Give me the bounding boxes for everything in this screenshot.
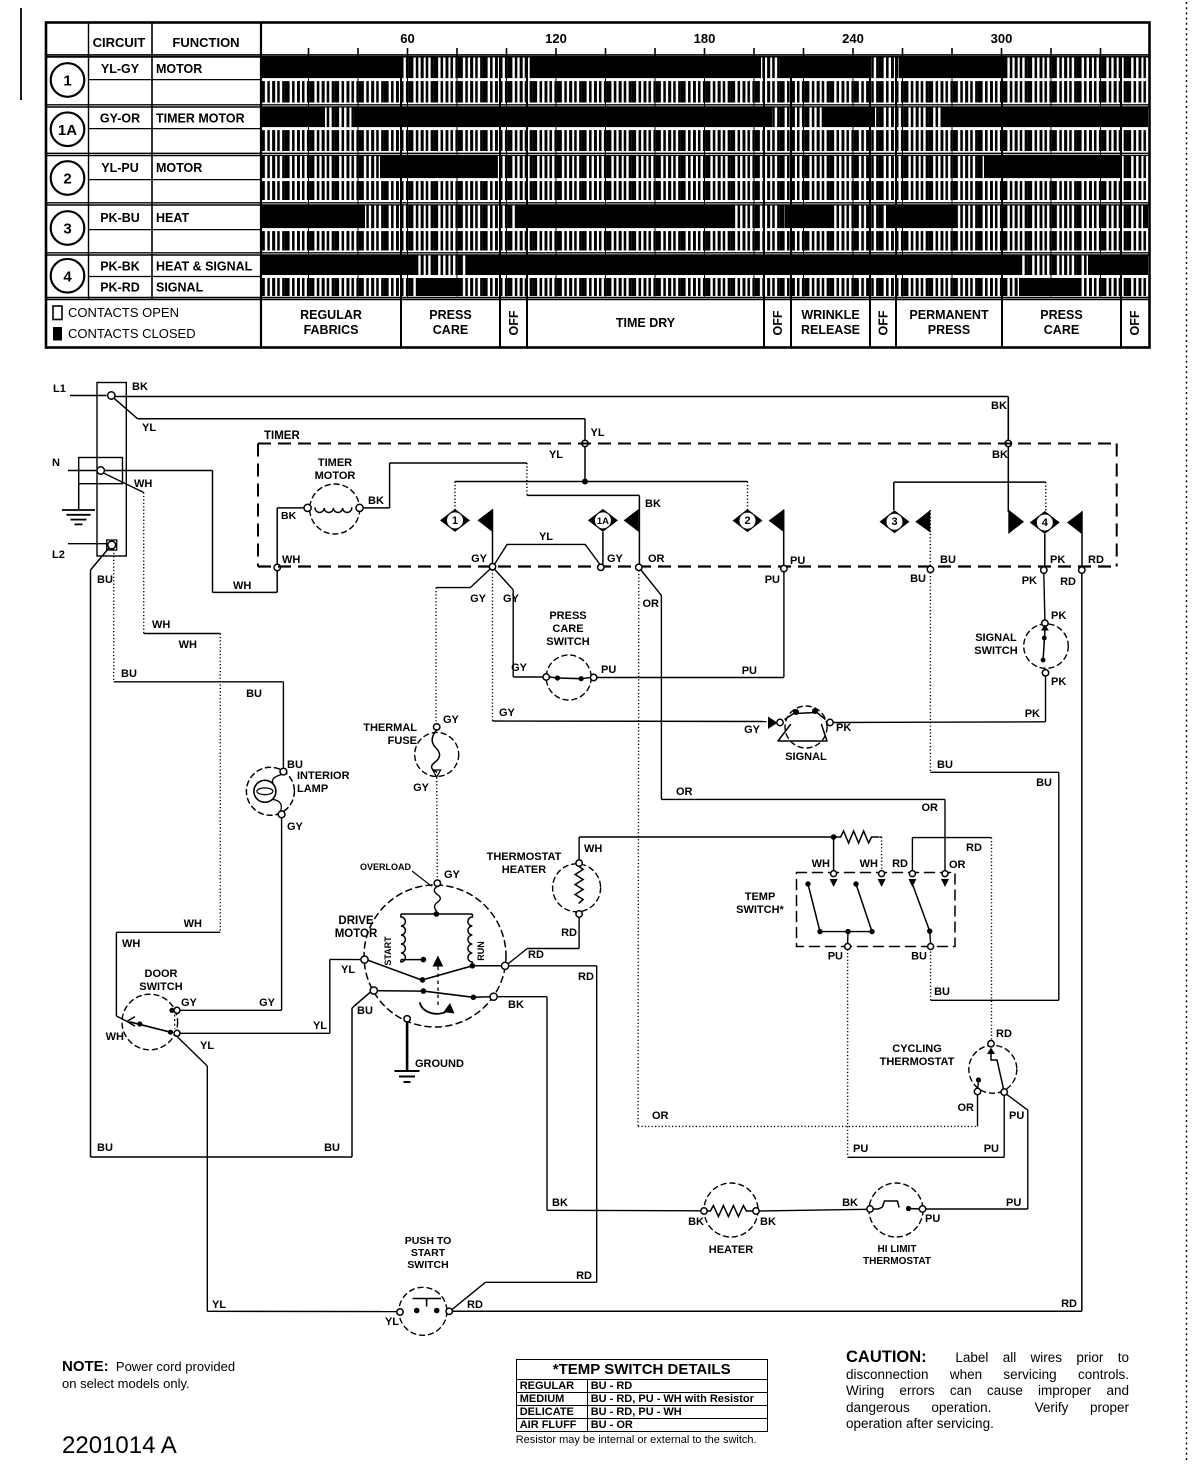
wire GY thermal fuse to drive motor: [437, 778, 461, 882]
cam switch 3: [880, 510, 931, 566]
svg-text:RD: RD: [1061, 1298, 1077, 1310]
svg-text:SWITCH: SWITCH: [407, 1259, 448, 1271]
node BU output of cam 3: [910, 554, 956, 585]
chart circuit and function labels: [100, 62, 253, 295]
svg-text:4: 4: [1042, 517, 1049, 529]
svg-text:1A: 1A: [597, 516, 609, 527]
svg-text:WH: WH: [184, 918, 202, 930]
wire PU press care switch to cam 2: [597, 572, 784, 678]
svg-text:GY: GY: [181, 997, 198, 1009]
svg-text:PK: PK: [1022, 575, 1037, 587]
svg-text:RD: RD: [966, 842, 982, 854]
svg-text:YL-PU: YL-PU: [101, 161, 139, 175]
svg-text:PU: PU: [790, 555, 805, 567]
svg-text:BU: BU: [937, 759, 953, 771]
svg-text:PK: PK: [1051, 610, 1066, 622]
cam switch 1A: [588, 509, 639, 564]
svg-text:TIME DRY: TIME DRY: [616, 316, 676, 330]
svg-text:YL: YL: [212, 1299, 226, 1311]
svg-text:120: 120: [545, 31, 567, 46]
svg-text:WH: WH: [106, 1031, 124, 1043]
svg-text:CONTACTS CLOSED: CONTACTS CLOSED: [68, 326, 196, 341]
svg-text:YL: YL: [549, 449, 563, 461]
svg-text:BK: BK: [281, 510, 297, 522]
svg-text:WH: WH: [812, 858, 830, 870]
chart row 1A GY-OR top band: [262, 108, 1148, 128]
cam 4 BK follower triangle: [1008, 510, 1024, 535]
terminal L2: [52, 540, 117, 561]
svg-text:GY: GY: [413, 782, 430, 794]
svg-text:2: 2: [744, 515, 750, 527]
svg-text:BU: BU: [911, 951, 927, 963]
wire PK feed line cams 3 and 4: [894, 482, 1046, 511]
svg-text:THERMOSTAT: THERMOSTAT: [880, 1056, 955, 1068]
svg-text:RD: RD: [892, 858, 908, 870]
svg-text:PU: PU: [853, 1143, 868, 1155]
wire OR cam 1A to cycling thermostat: [638, 571, 978, 1127]
svg-text:HEAT & SIGNAL: HEAT & SIGNAL: [156, 259, 253, 273]
wire YL inside timer: [549, 447, 585, 482]
node RD output of cam 4: [1060, 554, 1104, 588]
svg-text:RD: RD: [467, 1299, 483, 1311]
svg-text:START: START: [411, 1247, 446, 1259]
svg-text:CONTACTS OPEN: CONTACTS OPEN: [68, 305, 179, 320]
svg-text:GY: GY: [511, 662, 528, 674]
svg-text:GY: GY: [470, 593, 487, 605]
svg-text:MOTOR: MOTOR: [156, 161, 202, 175]
svg-text:WH: WH: [134, 478, 152, 490]
chart row 1A GY-OR bottom band: [262, 130, 1148, 151]
svg-text:OFF: OFF: [1128, 310, 1142, 335]
svg-text:FABRICS: FABRICS: [304, 323, 359, 337]
cam switch 1: [440, 509, 493, 564]
svg-text:BU: BU: [97, 1142, 113, 1154]
svg-text:THERMAL: THERMAL: [363, 722, 417, 734]
wire PK signal switch to cam 4: [1044, 573, 1045, 620]
svg-text:RD: RD: [996, 1028, 1012, 1040]
wire RD drive motor to thermostat heater: [508, 917, 579, 963]
svg-text:OR: OR: [676, 786, 693, 798]
cam switch 4: [1030, 511, 1082, 567]
chart row 3 PK-BU top band: [262, 206, 1148, 229]
svg-text:PK: PK: [1025, 708, 1040, 720]
svg-text:L1: L1: [53, 383, 66, 395]
chart row 3 PK-BU bottom band: [262, 231, 1148, 250]
svg-text:HEATER: HEATER: [709, 1244, 753, 1256]
svg-text:OR: OR: [648, 553, 665, 565]
wire GY interior lamp to door switch: [180, 818, 281, 1011]
svg-text:GY: GY: [259, 997, 276, 1009]
ground symbol at drive motor: [395, 1016, 464, 1082]
wire BU from L2 to interior lamp: [114, 550, 303, 772]
wire BU from L2 down left side: [91, 548, 113, 1157]
svg-text:BK: BK: [368, 495, 384, 507]
svg-text:OVERLOAD: OVERLOAD: [360, 862, 412, 872]
svg-text:CARE: CARE: [1044, 323, 1079, 337]
svg-text:OR: OR: [949, 859, 966, 871]
chart 20-minute grid lines: [309, 57, 1101, 297]
svg-text:WRINKLE: WRINKLE: [801, 308, 859, 322]
svg-text:YL: YL: [313, 1020, 327, 1032]
svg-text:RUN: RUN: [476, 941, 486, 961]
svg-text:WH: WH: [584, 843, 602, 855]
svg-text:INTERIOR: INTERIOR: [297, 770, 350, 782]
svg-text:BK: BK: [760, 1216, 776, 1228]
svg-text:WH: WH: [282, 554, 300, 566]
svg-text:OR: OR: [922, 802, 939, 814]
wire YL feed line to cams 1 and 2: [455, 482, 748, 511]
wire BK timer motor right to cam 1A follower: [363, 463, 661, 564]
svg-text:CARE: CARE: [433, 323, 468, 337]
svg-text:MOTOR: MOTOR: [315, 470, 356, 482]
svg-text:BK: BK: [992, 449, 1008, 461]
svg-text:START: START: [383, 936, 393, 966]
svg-text:OFF: OFF: [877, 310, 891, 335]
page left edge mark: [20, 8, 22, 100]
wire PK signal to signal switch: [833, 676, 1045, 722]
svg-text:4: 4: [63, 268, 72, 285]
node GY input of cam 1A: [598, 553, 624, 571]
svg-text:SIGNAL: SIGNAL: [785, 751, 827, 763]
svg-text:HEATER: HEATER: [502, 864, 546, 876]
chart outer border: [46, 23, 1150, 348]
svg-text:PUSH TO: PUSH TO: [405, 1235, 451, 1247]
svg-text:YL: YL: [385, 1316, 399, 1328]
node WH on timer box: [274, 564, 280, 570]
svg-text:SWITCH: SWITCH: [546, 636, 589, 648]
svg-text:180: 180: [694, 31, 716, 46]
svg-text:PK: PK: [836, 722, 851, 734]
signal buzzer: [768, 706, 851, 763]
svg-text:RD: RD: [561, 927, 577, 939]
svg-text:GY: GY: [499, 707, 516, 719]
wire PU temp switch to cycling thermostat: [848, 950, 1005, 1158]
caution text: [846, 1349, 1129, 1433]
svg-text:GY: GY: [607, 553, 624, 565]
svg-text:N: N: [52, 457, 60, 469]
svg-text:PU: PU: [925, 1213, 940, 1225]
chart row 1 YL-GY bottom band: [262, 81, 1148, 102]
svg-text:RD: RD: [528, 949, 544, 961]
svg-text:FUNCTION: FUNCTION: [172, 35, 239, 50]
chart row 4 PK-BK top band: [262, 256, 1148, 276]
svg-text:YL: YL: [142, 422, 156, 434]
svg-text:YL: YL: [539, 531, 553, 543]
cam switch 2: [733, 509, 784, 565]
chart row 2 YL-PU bottom band: [262, 181, 1148, 200]
wire YL jumper cam1 node to cam 1A input: [495, 531, 600, 565]
svg-text:SWITCH*: SWITCH*: [736, 904, 784, 916]
svg-text:PK-BK: PK-BK: [100, 259, 140, 273]
wire BU bottom left: [91, 992, 373, 1157]
temp switch details table: [516, 1359, 766, 1446]
svg-text:240: 240: [842, 31, 864, 46]
wire BU cam 3 to temp switch: [930, 573, 1058, 1001]
svg-text:REGULAR: REGULAR: [300, 308, 362, 322]
junction WH resistor: [831, 834, 837, 840]
svg-text:PRESS: PRESS: [928, 323, 970, 337]
svg-text:SWITCH: SWITCH: [139, 981, 182, 993]
junction YL feed: [582, 479, 588, 485]
svg-text:THERMOSTAT: THERMOSTAT: [487, 851, 562, 863]
cycling thermostat S5: [880, 1041, 1025, 1123]
wire GY cam1 to thermal fuse: [436, 569, 490, 726]
svg-text:BU: BU: [324, 1142, 340, 1154]
svg-text:GY: GY: [443, 714, 460, 726]
svg-text:BK: BK: [991, 400, 1007, 412]
wire YL door switch to push-to-start: [176, 1036, 399, 1329]
svg-text:SWITCH: SWITCH: [974, 645, 1017, 657]
node PK output of cam 4: [1022, 554, 1066, 587]
svg-text:PK-RD: PK-RD: [100, 281, 140, 295]
svg-text:1: 1: [63, 73, 71, 90]
timer motor M1: [281, 457, 384, 534]
svg-text:TEMP: TEMP: [745, 891, 776, 903]
svg-text:HEAT: HEAT: [156, 211, 189, 225]
timer dashed box: [258, 430, 1117, 567]
svg-text:PU: PU: [984, 1143, 999, 1155]
svg-text:WH: WH: [179, 639, 197, 651]
svg-text:OR: OR: [643, 598, 660, 610]
svg-text:BU: BU: [940, 554, 956, 566]
svg-text:OR: OR: [958, 1102, 975, 1114]
wire YL door switch to drive motor: [180, 959, 360, 1033]
svg-text:GY: GY: [744, 724, 761, 736]
svg-text:BK: BK: [842, 1197, 858, 1209]
svg-text:BK: BK: [645, 498, 661, 510]
svg-text:300: 300: [991, 31, 1013, 46]
resistor on WH line: [834, 831, 882, 843]
wire BK from L1 to timer cam 4: [115, 381, 1009, 440]
wire BK timer motor left to WH node: [277, 508, 304, 564]
node GY output of cam 1: [471, 553, 496, 570]
wire BK drive motor to heater: [497, 997, 704, 1228]
svg-text:GY: GY: [503, 593, 520, 605]
svg-text:DOOR: DOOR: [145, 968, 178, 980]
note text: [62, 1358, 292, 1392]
timer sequence chart table: [46, 23, 1150, 348]
svg-text:PU: PU: [601, 664, 616, 676]
svg-text:RD: RD: [1060, 576, 1076, 588]
wire WH thermostat heater to temp switch resistor: [579, 837, 834, 860]
svg-text:WH: WH: [233, 580, 251, 592]
svg-text:DRIVE: DRIVE: [338, 915, 373, 927]
wire WH from N to door switch: [104, 473, 220, 1021]
svg-text:RD: RD: [1088, 554, 1104, 566]
svg-text:PRESS: PRESS: [429, 308, 471, 322]
heater R1: [701, 1183, 776, 1256]
svg-text:BU: BU: [1036, 777, 1052, 789]
svg-text:WH: WH: [860, 858, 878, 870]
svg-text:LAMP: LAMP: [297, 783, 328, 795]
svg-text:1A: 1A: [58, 122, 77, 139]
svg-text:PERMANENT: PERMANENT: [909, 308, 989, 322]
svg-text:L2: L2: [52, 549, 65, 561]
wire BK inside timer to cam 4 follower: [992, 447, 1008, 512]
svg-text:GY-OR: GY-OR: [100, 111, 140, 125]
wire PU cycling thermostat to hi-limit: [926, 1094, 1028, 1209]
svg-text:RD: RD: [578, 971, 594, 983]
wire RD temp switch to cycling thermostat: [892, 838, 1012, 1041]
wire RD cam 4 down right side: [453, 573, 1082, 1311]
node YL on timer box: [582, 440, 588, 446]
svg-text:1: 1: [452, 515, 458, 527]
svg-text:CARE: CARE: [552, 623, 583, 635]
chart header row line: [46, 56, 1150, 58]
svg-text:BU: BU: [246, 688, 262, 700]
svg-text:YL-GY: YL-GY: [101, 62, 140, 76]
door switch S1: [106, 968, 215, 1052]
svg-text:HI LIMIT: HI LIMIT: [878, 1244, 917, 1255]
svg-text:OFF: OFF: [507, 310, 521, 335]
svg-text:YL: YL: [341, 964, 355, 976]
svg-text:PU: PU: [1009, 1110, 1024, 1122]
chart cycle boundary lines: [401, 57, 1121, 348]
svg-text:2: 2: [63, 171, 71, 188]
chart sub-row divider lines: [89, 79, 262, 81]
push to start switch S7: [397, 1235, 483, 1335]
wire RD drive motor to push-to-start: [452, 966, 596, 1309]
press care switch S2: [543, 610, 616, 700]
svg-text:SIGNAL: SIGNAL: [975, 632, 1017, 644]
svg-text:GROUND: GROUND: [415, 1058, 464, 1070]
terminal N: [52, 457, 104, 474]
wire WH resistor to temp switch WH2: [860, 837, 882, 870]
svg-text:YL: YL: [591, 427, 605, 439]
chart column lines: [88, 23, 90, 300]
interior lamp: [246, 767, 349, 833]
ground symbol at N: [62, 484, 95, 525]
thermal fuse F1: [363, 722, 458, 794]
svg-text:FUSE: FUSE: [388, 735, 417, 747]
svg-text:BU: BU: [910, 573, 926, 585]
svg-text:WH: WH: [152, 619, 170, 631]
chart row 2 YL-PU top band: [262, 156, 1148, 178]
svg-text:PU: PU: [1006, 1197, 1021, 1209]
svg-text:BK: BK: [688, 1216, 704, 1228]
chart cycle name labels: [300, 308, 1142, 337]
terminal L1: [53, 383, 115, 399]
svg-text:3: 3: [63, 221, 71, 238]
svg-text:PU: PU: [828, 951, 843, 963]
svg-text:PU: PU: [742, 665, 757, 677]
svg-text:BU: BU: [357, 1005, 373, 1017]
svg-text:BK: BK: [552, 1197, 568, 1209]
drawing number 2201014 A: [62, 1432, 177, 1460]
svg-text:TIMER MOTOR: TIMER MOTOR: [156, 111, 245, 125]
svg-text:MOTOR: MOTOR: [156, 62, 202, 76]
chart row 1 YL-GY top band: [262, 58, 1148, 79]
svg-text:RELEASE: RELEASE: [801, 323, 860, 337]
svg-text:RD: RD: [576, 1270, 592, 1282]
svg-text:CYCLING: CYCLING: [892, 1043, 942, 1055]
svg-text:PK: PK: [1050, 554, 1065, 566]
node OR output of cam 1A: [636, 553, 665, 571]
svg-text:THERMOSTAT: THERMOSTAT: [863, 1256, 931, 1267]
wire YL from L1: [114, 399, 604, 441]
wire GY cam1 to press care switch: [494, 569, 542, 677]
hi-limit thermostat S6: [863, 1183, 940, 1267]
temp switch S4: [736, 871, 955, 963]
svg-text:TIMER: TIMER: [318, 457, 352, 469]
page right edge dotted border: [1186, 2, 1188, 1462]
chart row group borders: [46, 54, 1150, 56]
chart legend contacts key: [53, 305, 196, 341]
svg-text:BU: BU: [97, 574, 113, 586]
chart circuit number circles: [51, 63, 85, 292]
svg-text:PK-BU: PK-BU: [100, 211, 140, 225]
wire BK heater to hi-limit: [759, 1197, 866, 1211]
svg-text:SIGNAL: SIGNAL: [156, 281, 204, 295]
svg-text:PK: PK: [1051, 676, 1066, 688]
signal switch S3: [974, 610, 1068, 688]
svg-text:GY: GY: [287, 821, 304, 833]
chart time scale numbers and ticks: [309, 31, 1101, 57]
svg-text:GY: GY: [471, 553, 488, 565]
wire OR cam 1A branch to temp switch: [641, 570, 966, 871]
chart row 4 PK-RD bottom band: [262, 278, 1148, 296]
node PU output of cam 2: [765, 555, 806, 586]
node BK on timer box: [1005, 440, 1011, 446]
svg-text:OFF: OFF: [771, 310, 785, 335]
wire WH from N to timer: [105, 471, 300, 593]
svg-text:BK: BK: [508, 999, 524, 1011]
svg-text:MOTOR: MOTOR: [335, 928, 378, 940]
svg-text:PRESS: PRESS: [1040, 308, 1082, 322]
svg-text:PU: PU: [765, 574, 780, 586]
terminal block: [79, 383, 127, 557]
svg-text:OR: OR: [652, 1110, 669, 1122]
wire GY cam1 to signal: [493, 570, 767, 736]
svg-text:60: 60: [400, 31, 414, 46]
svg-text:BU: BU: [934, 986, 950, 998]
svg-text:YL: YL: [200, 1040, 214, 1052]
svg-text:GY: GY: [444, 869, 461, 881]
svg-text:BU: BU: [121, 668, 137, 680]
svg-text:CIRCUIT: CIRCUIT: [93, 35, 146, 50]
svg-text:BK: BK: [132, 381, 148, 393]
svg-text:WH: WH: [122, 938, 140, 950]
svg-text:3: 3: [891, 516, 897, 528]
drive motor M2: [335, 862, 544, 1027]
svg-text:TIMER: TIMER: [264, 430, 300, 442]
wire WH junction to temp switch WH1: [812, 837, 834, 870]
thermostat heater R2: [487, 843, 603, 917]
svg-text:PRESS: PRESS: [549, 610, 586, 622]
